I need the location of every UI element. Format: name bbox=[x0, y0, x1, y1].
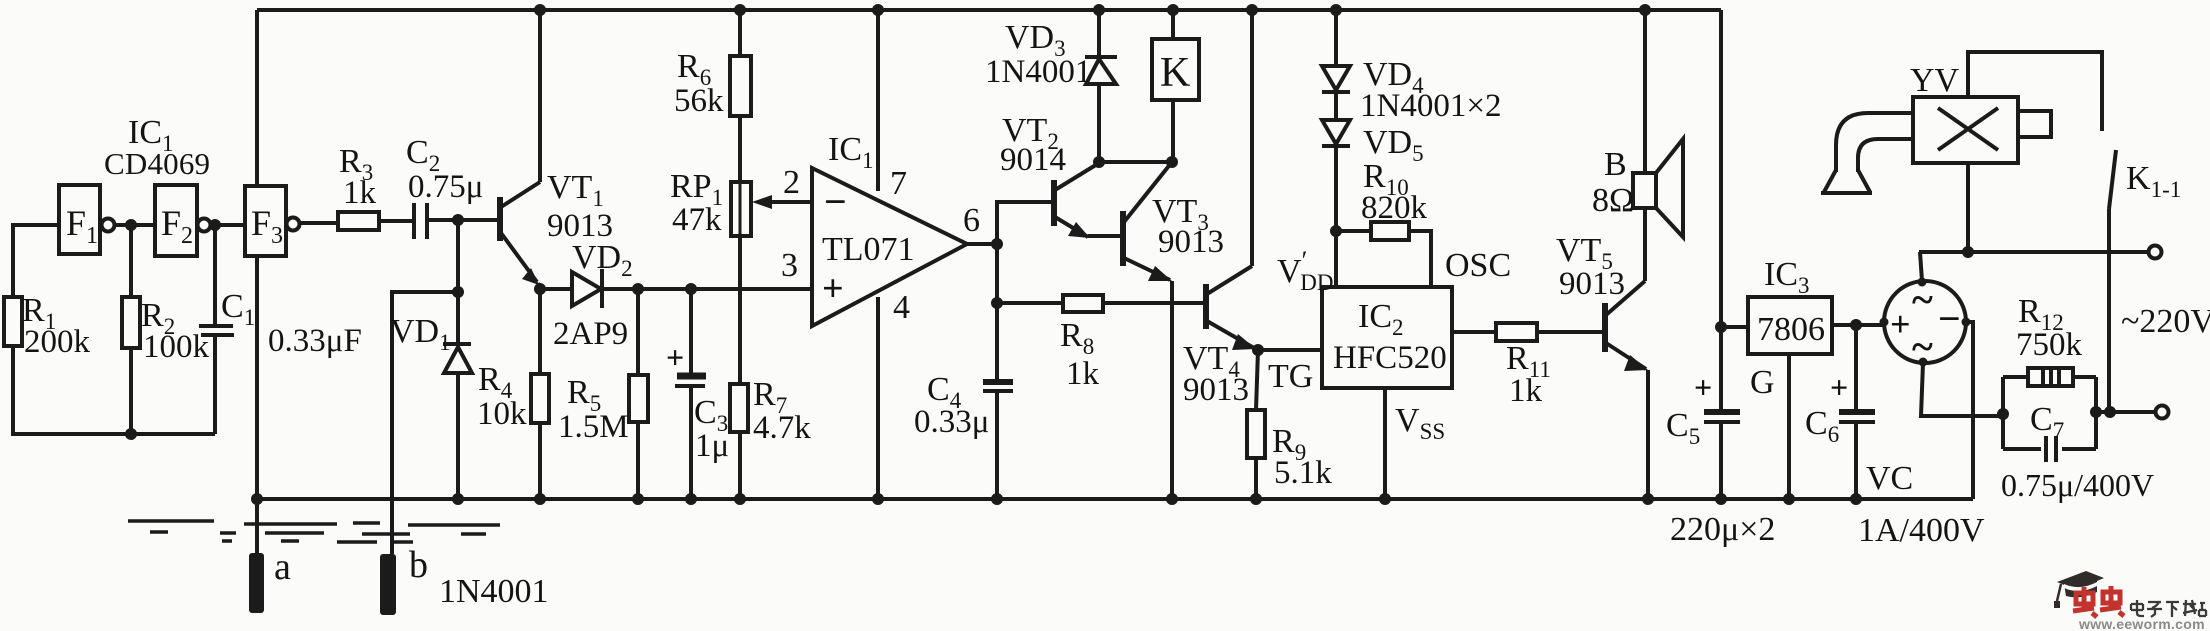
wire base junction down to probe b row bbox=[452, 220, 464, 298]
solenoid valve YV bbox=[1910, 62, 2051, 163]
svg-text:a: a bbox=[274, 546, 291, 588]
resistor R5 bbox=[558, 289, 648, 505]
svg-text:0.33μ: 0.33μ bbox=[914, 404, 989, 440]
capacitor C5 electrolytic bbox=[1666, 327, 1740, 505]
svg-text:4: 4 bbox=[893, 289, 910, 326]
wire F2 out to F3 in bbox=[211, 223, 245, 227]
svg-text:G: G bbox=[1750, 364, 1775, 401]
wire pin6 node down to R8 row bbox=[991, 244, 1003, 309]
svg-text:9014: 9014 bbox=[1000, 142, 1066, 178]
svg-text:+: + bbox=[1830, 369, 1848, 405]
svg-text:−: − bbox=[824, 179, 847, 224]
node base junction bbox=[452, 214, 464, 226]
label 0.33uF for C1 bbox=[268, 323, 362, 359]
svg-text:1N4001×2: 1N4001×2 bbox=[1360, 88, 1501, 124]
terminal mains live bbox=[2149, 246, 2162, 259]
svg-text:2: 2 bbox=[783, 164, 800, 201]
svg-text:+: + bbox=[666, 339, 684, 375]
resistor R8 bbox=[997, 295, 1203, 392]
svg-text:5.1k: 5.1k bbox=[1274, 455, 1332, 491]
wire F3 output to R3 bbox=[300, 221, 338, 225]
label 1A/400V bbox=[1858, 512, 1985, 549]
wire op-amp pin7 to top bus bbox=[872, 4, 884, 191]
watermark logo cap bbox=[2054, 571, 2104, 608]
svg-text:2AP9: 2AP9 bbox=[553, 316, 628, 352]
svg-text:9013: 9013 bbox=[1183, 372, 1249, 408]
wire C2 to VT1 base bbox=[427, 218, 497, 222]
svg-text:−: − bbox=[1938, 296, 1961, 341]
svg-text:4.7k: 4.7k bbox=[753, 410, 811, 446]
svg-text:VC: VC bbox=[1866, 460, 1913, 497]
wire op-amp output pin6 bbox=[967, 238, 1003, 250]
diode VD1 bbox=[390, 292, 472, 505]
wire op-amp pin4 to ground bus bbox=[872, 297, 884, 505]
svg-text:1μ: 1μ bbox=[695, 428, 729, 464]
svg-text:TG: TG bbox=[1268, 358, 1313, 395]
resistor R1 bbox=[4, 292, 91, 360]
wire bridge top to mains live row bbox=[1920, 252, 1922, 281]
svg-text:7806: 7806 bbox=[1757, 311, 1825, 348]
potentiometer RP1 47k bbox=[670, 168, 812, 289]
capacitor C3 electrolytic bbox=[666, 289, 729, 505]
label OSC bbox=[1445, 247, 1511, 284]
svg-text:TL071: TL071 bbox=[822, 231, 915, 268]
label VC bbox=[1866, 460, 1913, 497]
svg-text:YV: YV bbox=[1910, 62, 1960, 99]
resistor R6 bbox=[674, 4, 751, 182]
svg-text:200k: 200k bbox=[24, 324, 91, 360]
inverter F3 bbox=[245, 186, 300, 256]
IC2 HFC520 bbox=[1322, 287, 1452, 388]
node VT4 emitter junction bbox=[1252, 344, 1264, 356]
capacitor C4 bbox=[914, 303, 1013, 505]
terminal mains neutral bbox=[2156, 406, 2169, 419]
svg-text:47k: 47k bbox=[672, 202, 722, 238]
wire 7806 input from bridge bbox=[1832, 323, 1884, 327]
resistor R2 bbox=[122, 225, 210, 440]
svg-text:100k: 100k bbox=[143, 329, 210, 365]
relay coil K bbox=[1152, 4, 1199, 162]
svg-text:820k: 820k bbox=[1361, 190, 1428, 226]
node C3 top junction bbox=[685, 283, 697, 295]
svg-text:750k: 750k bbox=[2016, 327, 2083, 363]
wire top supply bus bbox=[257, 8, 1721, 12]
wire VT3 emitter to ground bus bbox=[1166, 281, 1178, 505]
node 7806 output junction bbox=[1715, 321, 1727, 333]
voltage regulator IC3 7806 bbox=[1721, 256, 1832, 354]
watermark site name glyphs bbox=[2131, 600, 2206, 617]
wire pin6 node up to VT2 base bbox=[997, 202, 1052, 244]
transistor VT4 9013 bbox=[1183, 266, 1256, 408]
resistor R12 bbox=[2016, 293, 2083, 386]
transistor VT5 9013 bbox=[1556, 232, 1648, 371]
svg-text:56k: 56k bbox=[674, 83, 724, 119]
node VDD junction bbox=[1277, 225, 1342, 295]
svg-text:~: ~ bbox=[1912, 324, 1933, 369]
op-amp U1 TL071 bbox=[781, 131, 980, 326]
resistor R11 bbox=[1452, 323, 1603, 409]
svg-text:+: + bbox=[1890, 304, 1911, 344]
transistor VT3 9013 bbox=[1123, 162, 1224, 281]
inverter F1 bbox=[59, 185, 115, 254]
wire F1 input loop bbox=[13, 225, 215, 434]
svg-text:1k: 1k bbox=[343, 175, 377, 211]
label ~220V bbox=[2121, 303, 2210, 340]
node F2 output junction bbox=[209, 219, 221, 231]
wire TG to IC2 bbox=[1258, 350, 1322, 395]
diode VD4 bbox=[1322, 4, 1501, 124]
wire bottom ground bus bbox=[257, 497, 1973, 501]
transistor VT1 9013 bbox=[500, 169, 613, 285]
switch K1-1 bbox=[2109, 150, 2181, 412]
diode VD5 bbox=[1322, 120, 1424, 231]
capacitor C6 electrolytic bbox=[1805, 325, 1875, 505]
faucet spout bbox=[1821, 113, 1913, 193]
dropper block R12 C7 bbox=[1997, 377, 2102, 449]
svg-text:0.75μ: 0.75μ bbox=[408, 169, 483, 205]
resistor R4 bbox=[477, 289, 549, 505]
bridge rectifier bbox=[1880, 277, 1971, 369]
svg-text:~: ~ bbox=[1912, 277, 1933, 322]
resistor R10 bbox=[1336, 158, 1431, 287]
label 1N4001 for VD1 bbox=[439, 573, 549, 610]
wire VT5 emitter to ground bus bbox=[1642, 370, 1654, 505]
wire C3 to RP1 column bbox=[691, 287, 812, 291]
wire YV bottom to live row bbox=[1966, 163, 1970, 252]
svg-text:8Ω: 8Ω bbox=[1592, 182, 1634, 219]
wire R5 to C3 bbox=[638, 287, 691, 291]
wire 7806 G pin to ground bus bbox=[1750, 354, 1795, 505]
wire bridge bottom to dropper row bbox=[1921, 363, 2003, 416]
diode VD2 2AP9 bbox=[540, 239, 638, 352]
diode VD3 1N4001 bbox=[985, 4, 1117, 162]
node F1 output junction bbox=[125, 219, 137, 231]
inverter F2 bbox=[155, 185, 211, 256]
wire left rail from top bus down to probe a bbox=[251, 10, 263, 553]
resistor R9 bbox=[1247, 350, 1332, 505]
svg-text:0.75μ/400V: 0.75μ/400V bbox=[2001, 467, 2154, 503]
svg-text:1k: 1k bbox=[1509, 373, 1543, 409]
svg-text:HFC520: HFC520 bbox=[1333, 340, 1447, 376]
svg-text:CD4069: CD4069 bbox=[104, 146, 210, 181]
svg-text:~220V: ~220V bbox=[2121, 303, 2210, 340]
node C6 top junction bbox=[1850, 319, 1862, 331]
wire probe b riser bbox=[392, 292, 458, 554]
speaker B 8ohm bbox=[1592, 4, 1683, 281]
svg-text:10k: 10k bbox=[477, 396, 527, 432]
svg-text:1N4001: 1N4001 bbox=[439, 573, 549, 610]
capacitor C7 bbox=[2001, 401, 2154, 503]
wire VT4 collector to top bus bbox=[1246, 4, 1258, 266]
wire VSS to ground bus bbox=[1379, 388, 1445, 505]
svg-text:7: 7 bbox=[890, 165, 907, 202]
probe b electrode bbox=[380, 544, 428, 615]
capacitor C1 bbox=[199, 225, 255, 434]
svg-text:6: 6 bbox=[963, 202, 980, 239]
svg-text:3: 3 bbox=[781, 247, 798, 284]
svg-text:9013: 9013 bbox=[1158, 224, 1224, 260]
wire F1 out to F2 in bbox=[115, 223, 155, 227]
node VT1 emitter junction bbox=[534, 283, 546, 295]
svg-text:+: + bbox=[822, 268, 844, 310]
wire YV top loop to switch bbox=[1968, 52, 2102, 131]
label 220u x2 bbox=[1670, 511, 1775, 548]
wire top bus right corner down bbox=[1719, 10, 1723, 327]
watermark url bbox=[2078, 616, 2205, 631]
svg-text:9013: 9013 bbox=[1559, 266, 1625, 302]
svg-text:B: B bbox=[1604, 146, 1627, 183]
resistor R7 bbox=[730, 289, 811, 505]
resistor R3 bbox=[338, 143, 379, 230]
wire collector tie row bbox=[1093, 156, 1178, 168]
IC1 label CD4069 bbox=[104, 114, 210, 181]
wire dropper to mains neutral terminal bbox=[2096, 406, 2155, 418]
svg-text:1.5M: 1.5M bbox=[558, 409, 629, 445]
probe a electrode bbox=[249, 546, 291, 613]
svg-text:K: K bbox=[1160, 50, 1190, 96]
transistor VT2 9014 bbox=[1000, 112, 1121, 238]
svg-text:220μ×2: 220μ×2 bbox=[1670, 511, 1775, 548]
wire R3 to C2 bbox=[379, 219, 414, 223]
node YV bottom junction bbox=[1962, 246, 1974, 258]
svg-text:1k: 1k bbox=[1066, 356, 1100, 392]
svg-text:b: b bbox=[409, 544, 428, 586]
wire mains live row bbox=[1919, 250, 2148, 254]
svg-text:1N4001: 1N4001 bbox=[985, 54, 1091, 90]
svg-text:0.33μF: 0.33μF bbox=[268, 323, 362, 359]
svg-text:www.eeworm.com: www.eeworm.com bbox=[2078, 616, 2205, 631]
watermark chongchong characters bbox=[2073, 586, 2124, 617]
capacitor C2 bbox=[406, 134, 483, 239]
wire bridge right to ground bus bbox=[1966, 322, 1973, 499]
water surface lines bbox=[128, 521, 500, 542]
svg-text:+: + bbox=[1694, 369, 1712, 405]
node R5 top junction bbox=[632, 283, 644, 295]
wire VT1 collector to top bus bbox=[534, 4, 546, 182]
svg-text:1A/400V: 1A/400V bbox=[1858, 512, 1985, 549]
svg-text:OSC: OSC bbox=[1445, 247, 1511, 284]
